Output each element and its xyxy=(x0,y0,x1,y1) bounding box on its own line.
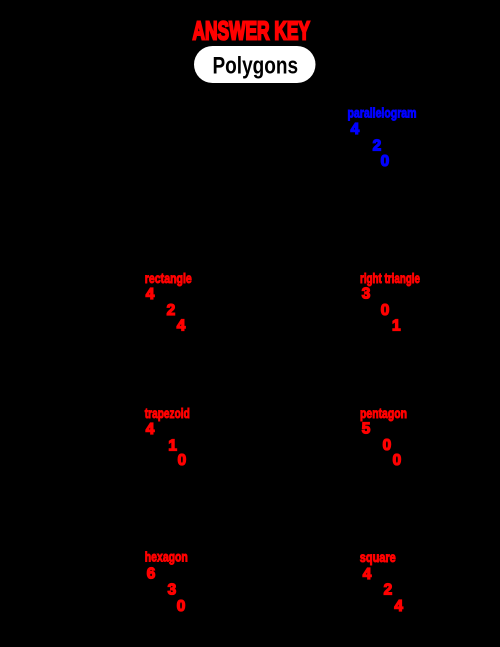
svg-text:right triangle: right triangle xyxy=(360,270,420,286)
svg-text:4: 4 xyxy=(351,121,360,138)
svg-text:1: 1 xyxy=(168,437,177,454)
svg-text:ANSWER KEY: ANSWER KEY xyxy=(193,15,311,45)
svg-text:4: 4 xyxy=(177,318,186,335)
svg-text:rectangle: rectangle xyxy=(145,270,192,286)
svg-text:0: 0 xyxy=(381,153,390,170)
example shape parallelogram (black, invisible on black) xyxy=(245,120,320,165)
svg-text:0: 0 xyxy=(177,598,186,615)
problem 6 shape square (black, invisible) xyxy=(265,548,323,606)
problem 4 shape pentagon (black, invisible) xyxy=(260,405,320,465)
svg-text:2: 2 xyxy=(373,137,382,154)
svg-text:0: 0 xyxy=(393,452,402,469)
title pill xyxy=(194,46,316,83)
svg-text:4: 4 xyxy=(394,598,403,615)
problem 1 shape rectangle (black, invisible) xyxy=(30,275,120,325)
problem 5 shape hexagon (black, invisible) xyxy=(35,545,115,605)
svg-text:3: 3 xyxy=(362,285,371,302)
svg-text:4: 4 xyxy=(146,421,155,438)
svg-text:4: 4 xyxy=(363,566,372,583)
svg-text:parallelogram: parallelogram xyxy=(348,105,417,121)
svg-text:3: 3 xyxy=(168,581,177,598)
svg-text:0: 0 xyxy=(381,302,390,319)
svg-text:0: 0 xyxy=(383,437,392,454)
problem 3 shape trapezoid (black, invisible) xyxy=(30,410,120,460)
svg-text:4: 4 xyxy=(146,286,155,303)
svg-text:1: 1 xyxy=(392,318,401,335)
svg-text:pentagon: pentagon xyxy=(360,405,407,421)
svg-text:square: square xyxy=(360,549,396,565)
svg-text:2: 2 xyxy=(167,302,176,319)
svg-text:Polygons: Polygons xyxy=(213,53,299,80)
svg-text:6: 6 xyxy=(147,565,156,582)
svg-text:2: 2 xyxy=(384,581,393,598)
svg-text:5: 5 xyxy=(362,420,371,437)
problem 2 shape right triangle (black, invisible) xyxy=(260,275,330,330)
svg-text:0: 0 xyxy=(178,452,187,469)
svg-text:trapezoid: trapezoid xyxy=(145,405,190,421)
svg-text:hexagon: hexagon xyxy=(145,549,188,565)
